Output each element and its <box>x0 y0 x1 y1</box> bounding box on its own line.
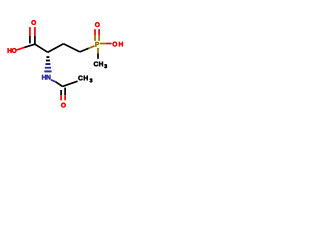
atom O5 acetyl oxygen label "O" <box>61 103 66 108</box>
bond C5-C7 to acetyl methyl <box>63 81 78 86</box>
atom C7 acetyl methyl label "CH3" <box>78 76 92 83</box>
bond C1=O1 carboxyl double bond, main line (red top / black bottom) <box>34 27 36 44</box>
bond C1-C2 <box>35 44 48 52</box>
atom N amide nitrogen label "HN" <box>42 75 50 80</box>
bond C4-P (black half / orange half) <box>80 46 95 52</box>
atom O1 carbonyl oxygen label "O" <box>31 20 36 25</box>
atom O3 phosphoryl oxygen label "O" <box>95 22 100 27</box>
bond C2-C3 <box>48 44 64 53</box>
atom C6 phosphorus methyl label "CH3" <box>94 62 107 68</box>
bond C1-O2 to hydroxyl (red half / black half) <box>17 44 35 50</box>
bond P=O3 phosphoryl double bond, right line (red top / orange bottom) <box>98 29 100 41</box>
atom O2 hydroxyl label "HO" <box>8 48 17 53</box>
bond P=O3 phosphoryl double bond, left line (red top / orange bottom) <box>94 29 96 41</box>
bond C5=O5 acetyl double bond, outer line (black top / red bottom) <box>60 90 62 100</box>
bond P-C6 to methyl, vertical (orange half / black half) <box>97 48 99 59</box>
bond C1=O1 carboxyl double bond, outer line (red top / black bottom) <box>29 27 31 43</box>
atom P phosphorus label "P" <box>95 42 99 47</box>
bond N-C5 amide bond (blue half / black half) <box>51 80 63 87</box>
bond C2-N hashed stereo wedge (black fading to blue) <box>44 56 51 72</box>
bond C5=O5 acetyl double bond, main line (black top / red bottom) <box>64 88 66 101</box>
bond C3-C4 <box>64 44 80 52</box>
bond P-O4 to hydroxyl, horizontal (orange half / red half) <box>100 43 112 45</box>
atom O4 hydroxyl label "OH" <box>113 42 123 47</box>
